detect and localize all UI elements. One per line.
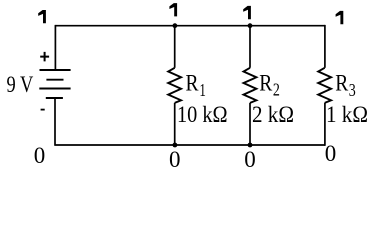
svg-text:2: 2 <box>273 80 280 100</box>
resistor R3 zigzag <box>318 68 331 103</box>
svg-text:10 kΩ: 10 kΩ <box>177 102 228 127</box>
wire R3 right branch bottom <box>324 103 326 146</box>
wire R2 bottom stub <box>249 103 251 145</box>
wire R3 right branch top <box>324 25 326 68</box>
battery B1 short plate 1 <box>46 79 63 81</box>
node label 1 above R1 <box>169 3 177 16</box>
junction dot node 0 at R1 <box>173 143 178 148</box>
battery B1 long plate 1 <box>40 69 71 71</box>
svg-text:0: 0 <box>244 147 256 172</box>
svg-text:9 V: 9 V <box>7 72 34 97</box>
wire bottom rail node 0 <box>55 144 325 146</box>
wire R1 bottom stub <box>174 103 176 145</box>
resistor R1 zigzag <box>168 68 181 103</box>
wire R2 top stub <box>249 26 251 68</box>
node label 1 top-right <box>336 11 344 24</box>
svg-text:R: R <box>259 71 273 96</box>
svg-text:2 kΩ: 2 kΩ <box>252 102 294 127</box>
junction dot node 1 at R2 <box>248 23 253 28</box>
node label 1 above R2 <box>243 6 251 19</box>
svg-text:3: 3 <box>349 80 356 100</box>
wire top rail node 1 <box>55 25 325 27</box>
battery minus polarity sign <box>41 109 45 111</box>
svg-text:R: R <box>186 71 200 96</box>
node label 1 top-left <box>38 10 46 23</box>
svg-text:1: 1 <box>199 80 206 100</box>
junction dot node 1 at R1 <box>173 23 178 28</box>
wire R1 top stub <box>174 26 176 68</box>
resistor R2 zigzag <box>244 68 257 103</box>
svg-text:0: 0 <box>34 143 46 168</box>
svg-text:R: R <box>335 71 349 96</box>
wire left branch top rail to battery <box>54 25 56 70</box>
junction dot node 0 at R2 <box>248 143 253 148</box>
battery B1 short plate 2 <box>46 97 63 99</box>
svg-text:0: 0 <box>169 147 181 172</box>
wire battery negative to bottom rail <box>54 98 56 146</box>
battery B1 long plate 2 <box>39 88 70 90</box>
battery plus polarity sign <box>40 52 49 62</box>
svg-text:1 kΩ: 1 kΩ <box>326 102 368 127</box>
svg-text:0: 0 <box>325 141 337 166</box>
